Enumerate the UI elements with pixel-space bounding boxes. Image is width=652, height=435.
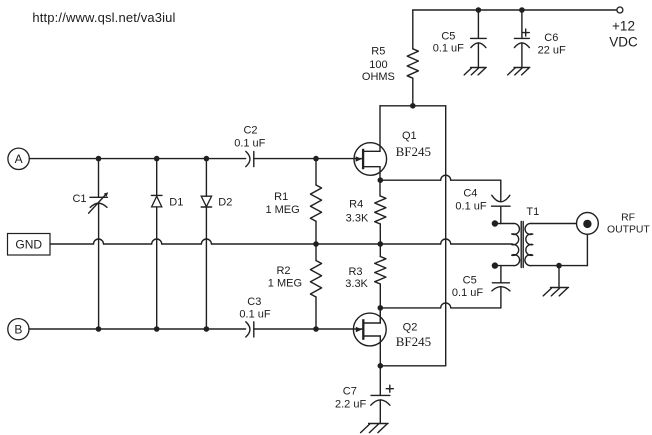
svg-text:1 MEG: 1 MEG (268, 278, 302, 290)
svg-text:RF: RF (621, 213, 635, 224)
svg-text:0.1 uF: 0.1 uF (433, 43, 464, 55)
svg-text:OHMS: OHMS (362, 71, 395, 83)
svg-text:D1: D1 (169, 196, 183, 208)
svg-text:3.3K: 3.3K (345, 278, 368, 290)
svg-text:BF245: BF245 (396, 144, 431, 159)
svg-text:C4: C4 (463, 187, 477, 199)
svg-text:BF245: BF245 (396, 334, 431, 349)
svg-text:100: 100 (369, 59, 387, 71)
svg-text:B: B (14, 323, 22, 337)
svg-text:http://www.qsl.net/va3iul: http://www.qsl.net/va3iul (32, 10, 175, 25)
svg-text:VDC: VDC (609, 35, 638, 50)
svg-text:C5: C5 (463, 274, 477, 286)
svg-text:R5: R5 (371, 45, 385, 57)
svg-text:R2: R2 (276, 265, 290, 277)
svg-text:0.1 uF: 0.1 uF (452, 287, 483, 299)
svg-text:OUTPUT: OUTPUT (607, 225, 650, 236)
svg-text:A: A (15, 152, 23, 166)
svg-text:Q2: Q2 (403, 322, 418, 334)
svg-text:C6: C6 (544, 32, 558, 44)
svg-text:GND: GND (15, 238, 42, 252)
svg-text:C2: C2 (243, 125, 257, 137)
svg-text:R3: R3 (348, 266, 362, 278)
svg-text:0.1 uF: 0.1 uF (239, 308, 270, 320)
svg-text:C3: C3 (247, 296, 261, 308)
svg-text:T1: T1 (526, 206, 539, 218)
svg-text:0.1 uF: 0.1 uF (455, 201, 486, 213)
svg-text:C7: C7 (343, 386, 357, 398)
svg-text:+12: +12 (612, 18, 635, 33)
svg-text:D2: D2 (218, 197, 232, 209)
svg-text:C1: C1 (72, 193, 86, 205)
svg-text:R4: R4 (349, 199, 363, 211)
svg-text:Q1: Q1 (402, 130, 417, 142)
svg-text:C5: C5 (441, 30, 455, 42)
svg-text:0.1 uF: 0.1 uF (234, 137, 265, 149)
svg-text:2.2 uF: 2.2 uF (335, 398, 366, 410)
svg-text:R1: R1 (274, 191, 288, 203)
svg-text:3.3K: 3.3K (346, 212, 369, 224)
svg-text:22 uF: 22 uF (538, 45, 566, 57)
svg-text:1 MEG: 1 MEG (265, 204, 299, 216)
